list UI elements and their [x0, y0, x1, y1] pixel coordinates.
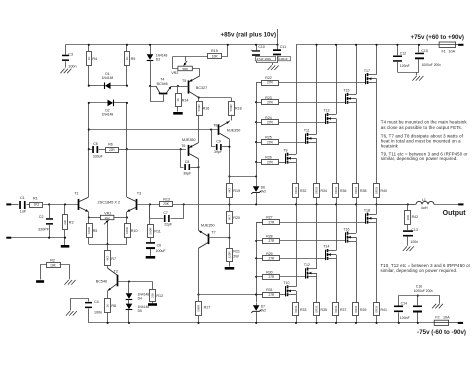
ground C4 [66, 311, 77, 316]
svg-text:similar, depending on power re: similar, depending on power required. [381, 268, 458, 273]
svg-text:4uH: 4uH [421, 206, 428, 210]
transistor T4 [149, 78, 178, 102]
resistor R13 [137, 197, 415, 206]
svg-text:C16: C16 [416, 284, 422, 288]
resistor R38 [353, 102, 367, 205]
resistor R10 [125, 218, 138, 245]
svg-text:1K2: 1K2 [34, 203, 40, 207]
terminal input- [6, 237, 11, 239]
svg-text:C11: C11 [280, 45, 286, 49]
node T8 collector drive junction [228, 175, 256, 177]
svg-text:R12: R12 [156, 294, 163, 298]
svg-text:1N4148: 1N4148 [102, 113, 114, 117]
transistor T12 [304, 263, 317, 278]
svg-text:100nF: 100nF [400, 316, 410, 320]
svg-text:R40: R40 [381, 189, 387, 193]
svg-text:BC546: BC546 [157, 82, 168, 86]
resistor R33 [293, 295, 307, 324]
svg-text:C13: C13 [411, 228, 417, 232]
label +75v (+60 to +90v) [411, 34, 465, 41]
wire C12 C15 common [397, 72, 419, 75]
svg-text:R18: R18 [235, 106, 242, 110]
svg-text:BC546: BC546 [96, 279, 107, 283]
svg-text:T3: T3 [137, 191, 141, 195]
resistor R9 [125, 44, 136, 86]
svg-text:R13: R13 [163, 197, 170, 201]
svg-text:C14: C14 [401, 301, 407, 305]
svg-text:100nF: 100nF [279, 57, 288, 61]
svg-text:C5: C5 [93, 142, 98, 146]
terminal +75v [458, 44, 463, 46]
wire +85v front-end rail [66, 44, 278, 46]
svg-text:100R: 100R [87, 227, 91, 234]
svg-text:23K: 23K [163, 202, 170, 206]
capacitor C10 [250, 44, 275, 63]
wire source T10 [296, 204, 298, 286]
svg-text:T12: T12 [304, 263, 310, 267]
wire T7 base [208, 237, 230, 239]
wire drain T17 [375, 44, 377, 75]
svg-text:10A: 10A [443, 315, 450, 319]
ground R12 [148, 303, 157, 306]
svg-text:1N4148: 1N4148 [102, 76, 114, 80]
resistor R3 [63, 204, 74, 245]
svg-text:560R: 560R [197, 305, 201, 312]
svg-text:R23: R23 [265, 96, 271, 100]
capacitor C8 [181, 150, 200, 176]
resistor R28 [255, 235, 345, 244]
svg-text:100n: 100n [94, 310, 102, 314]
svg-text:27R: 27R [267, 81, 274, 85]
wire T3 emitter to junction [126, 212, 128, 219]
svg-text:R28: R28 [266, 235, 272, 239]
svg-text:T4: T4 [160, 78, 164, 82]
wire upper gate bus [255, 82, 257, 177]
svg-text:330uF: 330uF [93, 155, 103, 159]
svg-text:1000uF 200v: 1000uF 200v [422, 63, 442, 67]
svg-text:22R: 22R [109, 148, 116, 152]
wire +75v rail [296, 44, 458, 46]
svg-text:T9: T9 [283, 148, 287, 152]
svg-text:+: + [250, 48, 252, 52]
resistor R27 [256, 216, 366, 225]
wire T6 collector down [198, 159, 200, 227]
svg-text:R38: R38 [360, 189, 366, 193]
svg-text:0R33: 0R33 [294, 187, 298, 194]
svg-text:T8: T8 [213, 123, 217, 127]
wire C10 C11 common [256, 63, 278, 66]
svg-text:27R: 27R [268, 239, 275, 243]
transistor T10 [283, 281, 296, 296]
ground R2 left [36, 280, 44, 283]
diode D2 [88, 100, 128, 117]
svg-text:4K7: 4K7 [227, 215, 231, 221]
resistor R4 [87, 44, 98, 86]
ground C6 [146, 256, 156, 259]
svg-text:R16: R16 [203, 106, 210, 110]
svg-text:560R: 560R [229, 104, 233, 111]
svg-text:R26: R26 [265, 156, 271, 160]
resistor R32 [293, 162, 307, 205]
trimmer VR1 [89, 211, 127, 244]
diode D3 [147, 44, 168, 86]
resistor R12 [150, 282, 164, 304]
capacitor C4 [71, 299, 103, 323]
svg-text:C1: C1 [20, 196, 25, 200]
svg-text:R21: R21 [233, 250, 240, 254]
fuse F2 [434, 315, 450, 325]
svg-text:similar, depending on power re: similar, depending on power required. [381, 156, 458, 161]
svg-text:T1: T1 [74, 191, 78, 195]
resistor R18 [229, 98, 242, 121]
wire lower gate bus [257, 223, 263, 303]
transistor T2 [96, 266, 118, 299]
svg-text:100n: 100n [410, 240, 418, 244]
capacitor C15 [415, 44, 441, 72]
svg-text:1000uF 200v: 1000uF 200v [414, 289, 434, 293]
svg-text:0R33: 0R33 [315, 187, 319, 194]
svg-text:R30: R30 [266, 270, 272, 274]
wire T1 emitter to junction [88, 212, 90, 219]
svg-text:R11: R11 [154, 230, 161, 234]
node T4 emitter junction [177, 85, 179, 87]
wire R3 top to row [64, 203, 66, 205]
svg-text:R35: R35 [321, 308, 327, 312]
svg-text:1K: 1K [125, 57, 129, 61]
svg-text:0R33: 0R33 [315, 305, 319, 312]
resistor R31 [255, 288, 285, 297]
transistor T11 [304, 129, 317, 144]
svg-text:100uF: 100uF [156, 249, 166, 253]
resistor R2 [41, 258, 70, 279]
transistor T3 [127, 191, 141, 211]
svg-text:10R: 10R [406, 215, 410, 220]
resistor R30 [255, 270, 306, 279]
wire source T14 [336, 204, 338, 250]
svg-text:R42: R42 [412, 215, 418, 219]
diode D4 [126, 282, 150, 301]
svg-text:C4: C4 [94, 300, 99, 304]
zener diode D6 [251, 177, 266, 206]
label Output [443, 210, 467, 217]
label +85v (rail plus 10v) [220, 32, 276, 39]
svg-text:R36: R36 [340, 189, 346, 193]
svg-text:R39: R39 [360, 308, 366, 312]
terminal input+ [6, 203, 11, 205]
resistor R25 [255, 136, 306, 145]
svg-text:2SC1845 X 2: 2SC1845 X 2 [98, 201, 121, 205]
svg-text:27R: 27R [267, 100, 274, 104]
svg-text:R1: R1 [33, 197, 38, 201]
capacitor C7 [150, 205, 184, 227]
svg-text:1K: 1K [176, 98, 180, 102]
svg-text:560R: 560R [148, 228, 152, 235]
transistor T9 [283, 148, 296, 163]
svg-text:T18: T18 [364, 208, 370, 212]
node T5 collector [198, 97, 231, 99]
wire source T18 [376, 204, 378, 214]
svg-text:10R: 10R [212, 55, 219, 59]
svg-text:560R: 560R [197, 104, 201, 111]
svg-text:R10: R10 [131, 229, 138, 233]
svg-text:R5: R5 [93, 229, 98, 233]
svg-text:T5: T5 [182, 79, 186, 83]
svg-text:MJE350: MJE350 [201, 224, 215, 228]
resistor R6 [106, 143, 128, 153]
svg-text:R22: R22 [265, 76, 271, 80]
wire R1 to T1 base [43, 203, 79, 205]
svg-text:C10: C10 [258, 45, 264, 49]
wire -75v rail [89, 322, 458, 324]
svg-text:R25: R25 [265, 136, 271, 140]
ground C13 [403, 246, 414, 251]
svg-text:R34: R34 [321, 189, 327, 193]
wire source T16 [356, 204, 358, 233]
svg-text:0R33: 0R33 [334, 305, 338, 312]
resistor R34 [314, 142, 327, 205]
terminal output [458, 203, 463, 205]
ground R3 [61, 245, 70, 248]
svg-text:R14: R14 [182, 98, 189, 102]
resistor R42 [405, 204, 419, 230]
svg-text:4K7: 4K7 [106, 255, 110, 261]
transistor T6 [181, 138, 198, 159]
svg-text:0R33: 0R33 [375, 305, 379, 312]
svg-text:22pF: 22pF [164, 223, 172, 227]
svg-text:T16: T16 [343, 227, 349, 231]
wire output line [377, 203, 459, 205]
wire input to C1 [11, 204, 18, 206]
svg-text:C15: C15 [421, 49, 427, 53]
transistor T16 [343, 227, 356, 242]
transistor T1 [74, 191, 88, 211]
svg-text:T15: T15 [343, 89, 349, 93]
svg-text:T6: T6 [181, 144, 185, 148]
wire VAS input row [127, 148, 186, 150]
resistor R14 [176, 86, 189, 112]
svg-text:2W: 2W [233, 254, 239, 258]
svg-text:F2: F2 [435, 315, 439, 319]
svg-text:100n: 100n [68, 64, 76, 68]
svg-text:MJE350: MJE350 [182, 138, 196, 142]
capacitor C12 [393, 44, 410, 72]
svg-text:330PF: 330PF [38, 228, 50, 232]
svg-text:10A: 10A [449, 50, 456, 54]
svg-text:220R: 220R [227, 251, 231, 258]
svg-text:R37: R37 [340, 308, 346, 312]
transistor T5 [178, 76, 207, 98]
ground R21 [225, 267, 235, 270]
svg-text:+75v (+60 to +90v): +75v (+60 to +90v) [411, 34, 465, 41]
note text block lower [381, 263, 471, 273]
capacitor C9 [212, 130, 231, 154]
svg-text:27R: 27R [268, 257, 275, 261]
resistor R20 [227, 203, 240, 237]
ground C3 [60, 69, 71, 74]
transistor T17 [364, 69, 377, 84]
svg-text:27R: 27R [267, 140, 274, 144]
terminal -75v [458, 322, 463, 324]
capacitor C13 [403, 228, 418, 246]
svg-text:VR1: VR1 [104, 211, 111, 215]
svg-text:T14: T14 [323, 245, 329, 249]
svg-text:T10: T10 [283, 281, 289, 285]
svg-text:R6: R6 [108, 143, 113, 147]
svg-text:1uF: 1uF [20, 209, 27, 213]
svg-text:R17: R17 [204, 305, 211, 309]
wire drain T15 [355, 44, 357, 95]
svg-text:R20: R20 [233, 216, 240, 220]
transistor T7 [199, 224, 216, 295]
resistor R35 [314, 277, 327, 324]
svg-text:T13: T13 [323, 109, 329, 113]
svg-text:R3: R3 [69, 221, 74, 225]
wire drain T11 [315, 44, 317, 135]
svg-text:R31: R31 [266, 288, 272, 292]
svg-text:R32: R32 [300, 189, 306, 193]
svg-text:heatsink: heatsink [381, 144, 399, 149]
svg-text:T2: T2 [114, 270, 118, 274]
resistor R8 [105, 299, 117, 324]
label 2SC1845 X 2 [98, 201, 121, 205]
fuse F1 [439, 42, 456, 54]
trimmer VR2 [171, 56, 199, 76]
svg-text:100R: 100R [125, 227, 129, 234]
svg-text:D3: D3 [156, 58, 160, 62]
transistor T13 [323, 109, 336, 124]
resistor R21 [227, 238, 240, 267]
transistor T8 [213, 121, 240, 177]
wire T3 collector [126, 103, 128, 197]
transistor T14 [323, 245, 336, 260]
capacitor C1 [19, 196, 27, 213]
svg-text:10K: 10K [50, 263, 57, 267]
svg-text:C7: C7 [163, 211, 168, 215]
svg-text:1N4148: 1N4148 [156, 53, 168, 57]
svg-text:R15: R15 [211, 49, 218, 53]
svg-text:T7: T7 [211, 231, 215, 235]
svg-text:9v2: 9v2 [261, 190, 266, 194]
resistor R19 [227, 177, 241, 205]
svg-text:0R33: 0R33 [354, 305, 358, 312]
svg-text:T4 must be mounted on the main: T4 must be mounted on the main heatsink [381, 119, 468, 124]
resistor R40 [374, 83, 387, 206]
svg-text:47uF 160v: 47uF 160v [257, 57, 272, 61]
svg-text:-75v (-60 to -90v): -75v (-60 to -90v) [417, 329, 466, 336]
resistor R1 [30, 197, 43, 208]
resistor R16 [197, 98, 210, 143]
svg-text:R33: R33 [300, 308, 306, 312]
resistor R17 [196, 295, 211, 324]
svg-text:0R33: 0R33 [334, 187, 338, 194]
svg-text:R29: R29 [266, 252, 272, 256]
svg-text:39pF: 39pF [183, 171, 191, 175]
svg-text:C3: C3 [68, 52, 73, 56]
svg-text:C12: C12 [400, 52, 406, 56]
node +85v entry tick [276, 29, 278, 46]
svg-text:39pF: 39pF [214, 150, 222, 154]
svg-text:27R: 27R [267, 120, 274, 124]
resistor R11 [148, 204, 161, 242]
svg-text:D4: D4 [138, 297, 142, 301]
svg-text:1K: 1K [87, 57, 91, 61]
svg-text:T17: T17 [364, 69, 370, 73]
wire C1 to R1 [27, 204, 30, 206]
svg-text:R9: R9 [131, 57, 136, 61]
wire drain T9 [296, 45, 298, 154]
svg-text:+85v (rail plus 10v): +85v (rail plus 10v) [220, 32, 276, 39]
capacitor C11 [273, 45, 290, 63]
diode D1 [88, 72, 128, 89]
svg-text:0R33: 0R33 [354, 187, 358, 194]
resistor R36 [333, 122, 347, 205]
inductor L1 [416, 198, 434, 210]
svg-text:R19: R19 [233, 189, 240, 193]
svg-text:27R: 27R [268, 275, 275, 279]
wire drain T13 [335, 44, 337, 115]
ground C10 C11 [268, 65, 279, 70]
svg-text:BC327: BC327 [196, 86, 207, 90]
svg-text:0R33: 0R33 [294, 305, 298, 312]
capacitor C6 [146, 242, 166, 256]
svg-text:F1: F1 [442, 50, 446, 54]
capacitor C2 [38, 204, 53, 237]
ground R14 [173, 112, 183, 115]
note text block upper [381, 119, 468, 161]
svg-text:C2: C2 [39, 215, 44, 219]
svg-text:MJE350: MJE350 [227, 128, 241, 132]
resistor R39 [353, 241, 367, 324]
resistor R7 [105, 244, 117, 265]
wire T8 base row from T1 collector [89, 129, 219, 131]
wire C14 C16 common top [399, 296, 440, 304]
transistor T18 [364, 208, 377, 223]
zener diode D7 [251, 303, 266, 324]
svg-text:T11: T11 [304, 129, 310, 133]
svg-text:0R33: 0R33 [375, 187, 379, 194]
resistor R15 [173, 44, 229, 59]
resistor R5 [87, 218, 98, 245]
svg-text:27R: 27R [268, 220, 275, 224]
svg-text:1K: 1K [106, 304, 110, 308]
diode D5 [126, 299, 150, 324]
capacitor C16 [413, 284, 433, 324]
svg-text:R2: R2 [50, 258, 55, 262]
svg-text:50R: 50R [182, 67, 188, 71]
svg-text:D5: D5 [138, 309, 142, 313]
node T7 collector drive junction [197, 294, 262, 296]
capacitor C3 [62, 45, 77, 69]
resistor R23 [255, 96, 345, 105]
wire T1 collector [88, 103, 90, 197]
svg-text:R4: R4 [92, 57, 97, 61]
svg-text:R41: R41 [381, 308, 387, 312]
svg-text:C9: C9 [216, 139, 221, 143]
resistor R37 [333, 259, 347, 324]
ground R2 right [65, 280, 76, 285]
resistor R41 [374, 222, 387, 324]
svg-text:L1: L1 [422, 198, 426, 202]
svg-text:as close as possible to the ou: as close as possible to the output FETs. [381, 125, 462, 130]
svg-text:R7: R7 [111, 257, 116, 261]
svg-text:100nF: 100nF [400, 64, 410, 68]
svg-text:Output: Output [443, 210, 467, 217]
svg-text:4K7: 4K7 [227, 187, 231, 193]
svg-text:22K: 22K [151, 293, 155, 298]
svg-text:27R: 27R [268, 293, 275, 297]
resistor R29 [255, 252, 325, 261]
wire source T12 [316, 204, 318, 269]
